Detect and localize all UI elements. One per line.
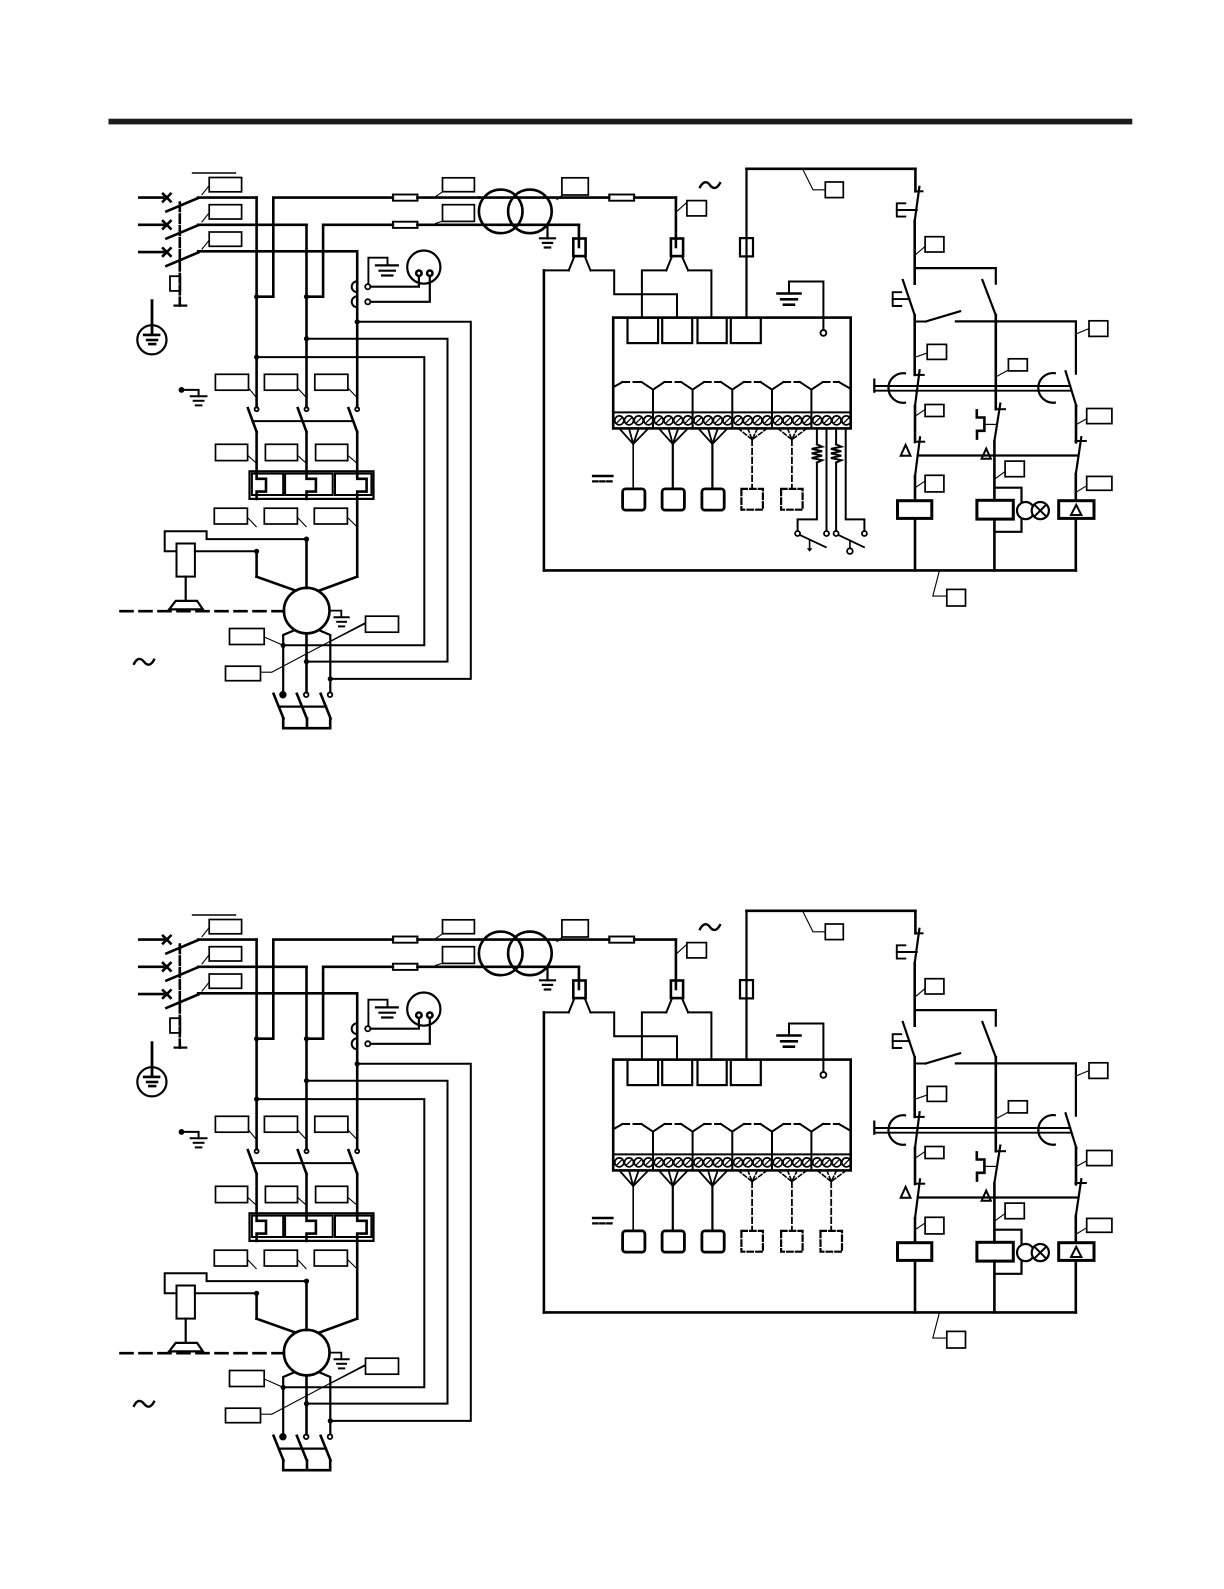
plug fork 1 D1 [642, 382, 654, 390]
connector X2 fan left D2 [666, 998, 672, 1012]
fuse F1 D1 [417, 196, 479, 199]
harness fan dashed 6 D2 [817, 1170, 831, 1181]
plug fork 5 D2 [800, 1124, 812, 1132]
plug contact arcs on L3 D1 [352, 281, 358, 292]
callout box C mid D1 [1087, 409, 1112, 424]
neutral ground lead D1 [184, 390, 199, 396]
earth circle symbol D1 [137, 325, 166, 354]
ground bars G2 D1 [778, 292, 801, 295]
future device box 4 dashed D1 [741, 489, 763, 510]
ground stub wire D2 [789, 1024, 823, 1073]
return bus D1 [544, 569, 1076, 572]
linkage actuator box D2 [170, 1018, 180, 1033]
callout leader fuse F2 D2 [436, 963, 443, 965]
wire B lower D1 [993, 442, 996, 501]
device box 2 D1 [662, 489, 684, 510]
contactor linkage bar D1 [253, 420, 352, 422]
branch split wire D2 [915, 1010, 996, 1026]
return bus D2 [544, 1311, 1076, 1314]
header rule [109, 119, 1133, 125]
relay input cell 3 D2 [698, 1060, 727, 1086]
device box 1 D2 [623, 1231, 645, 1252]
harness fan dashed 5 D2 [778, 1170, 792, 1181]
callout leader pole 1 D1 [202, 186, 209, 195]
callout leader pole 3 D2 [202, 982, 209, 991]
callout leader A mid D1 [916, 410, 926, 417]
device box 1 D1 [623, 489, 645, 510]
plug fork 4 D1 [761, 382, 773, 390]
plug fork 2 D2 [681, 1124, 693, 1132]
wire below contact pole 1 D1 [255, 432, 258, 472]
callout box motor lead A D1 [230, 629, 265, 645]
motor lead L1 diagonal D1 [255, 551, 258, 576]
earth circle symbol D2 [137, 1067, 166, 1096]
junction H3 D1 [328, 676, 333, 681]
callout box wiring pole 1 D1 [214, 508, 247, 524]
neutral ground bars D1 [191, 395, 207, 397]
callout leader secondary D1 [557, 195, 562, 199]
wire K2 to bus D1 [993, 519, 996, 570]
callout leader contactor pole 1 D1 [249, 388, 256, 397]
junction H1 D1 [281, 643, 286, 648]
emergency stop stub D2 [914, 911, 917, 934]
mounting trapezoid D1 [169, 601, 203, 610]
terminal strip top line D2 [613, 1153, 851, 1155]
ground at transformer D2 [546, 967, 548, 981]
emergency stop tick D1 [915, 190, 922, 192]
terminal X mark L2 D1 [163, 221, 171, 229]
relay coil K1 D1 [898, 501, 932, 519]
fuse F1 D2 [417, 938, 479, 941]
overload element pole 2 D1 [307, 472, 316, 499]
callout box B mid D2 [1005, 1203, 1024, 1219]
callout box branch C top D2 [1089, 1063, 1108, 1079]
contact circle pole 2 D2 [305, 1149, 309, 1153]
callout leader motor lead A D2 [264, 1379, 283, 1387]
lamp circle X D2 [1032, 1244, 1049, 1261]
wire L1 horizontal D2 [198, 938, 256, 941]
racking bus line 1 D2 [874, 1127, 1070, 1129]
resistor R2 D1 [831, 444, 841, 462]
neutral ground bars D2 [191, 1137, 207, 1139]
wire C mid D2 [1075, 1148, 1078, 1184]
callout box B mid D1 [1005, 461, 1024, 477]
emergency stop blade D1 [915, 187, 920, 221]
callout leader A mid D2 [916, 1152, 926, 1159]
mechanical coupling dashed D1 [121, 610, 284, 613]
racking bus line 1 D1 [874, 385, 1070, 387]
disconnect blade Q1 pole 1 D1 [166, 198, 198, 211]
wire C mid D1 [1075, 406, 1078, 442]
harness fan 1 D1 [619, 428, 633, 444]
sensor wire D D1 [846, 428, 865, 531]
breaker C blade D2 [1066, 1113, 1077, 1148]
callout box C mid D2 [1087, 1151, 1112, 1166]
socket body circle D1 [407, 251, 440, 284]
motor terminal mid D1 [305, 633, 308, 692]
enclosure left edge D2 [543, 1012, 546, 1312]
star switch contact circle 1 D1 [280, 692, 286, 698]
plug bus dashed segment 1 D1 [623, 381, 642, 383]
callout leader overload pole 2 D1 [298, 455, 306, 462]
junction node L1 tap D2 [254, 1036, 259, 1041]
wire A lower D2 [914, 1218, 917, 1242]
ground bracket at socket D1 [368, 258, 387, 284]
wire through transformer secondary D2 [479, 965, 579, 968]
contact circle pole 3 D2 [355, 1149, 359, 1153]
callout box branch A top D2 [927, 1086, 946, 1101]
sense wire from L1 D2 [257, 1099, 425, 1387]
racking bus line 2 D2 [874, 1132, 1070, 1134]
motor lead L2 D2 [305, 1281, 308, 1330]
sense wire from L2 D2 [307, 1081, 448, 1404]
enclosure left edge D1 [543, 270, 546, 570]
callout box fuse F2 D2 [443, 947, 475, 964]
callout leader pole 3 D1 [202, 240, 209, 249]
plug bus dashed segment 4 D2 [744, 1123, 761, 1125]
feeder line L1 D2 [139, 938, 163, 941]
junction H2 D1 [304, 659, 309, 664]
star switch blade 3 D1 [321, 694, 331, 719]
callout box top wire D1 [825, 182, 843, 198]
star switch contact circle 3 D1 [328, 692, 333, 697]
neutral dot D2 [179, 1129, 185, 1135]
plug bus dashed segment 3 D2 [704, 1123, 721, 1125]
wire through transformer primary D1 [479, 196, 609, 199]
socket pin 1 D1 [416, 271, 421, 276]
wire to connector X2 D2 [675, 940, 678, 989]
callout leader wiring pole 2 D1 [297, 517, 306, 526]
switch S1 fixed contact D1 [795, 531, 800, 536]
contact C2 blade D1 [1076, 437, 1082, 474]
junction H3 D2 [328, 1418, 333, 1423]
callout leader A low D1 [916, 481, 926, 488]
wire below start left D1 [913, 315, 916, 375]
plug fork 1 D2 [642, 1124, 654, 1132]
contact circle pole 1 D1 [255, 407, 259, 411]
callout box top wire D2 [825, 924, 843, 940]
wire L1 horizontal D1 [198, 196, 256, 199]
disconnect blade Q1 pole 2 D1 [166, 225, 198, 238]
wire C lower D1 [1075, 474, 1078, 501]
control feed top wire D1 [747, 168, 916, 171]
AC tilde mark lower D1 [134, 659, 154, 665]
callout box pole 2 D2 [209, 947, 241, 961]
racking bus end cap D1 [873, 380, 875, 392]
motor ground D2 [330, 1353, 342, 1360]
star switch bar box D2 [283, 1460, 330, 1470]
wire branch B upper D1 [994, 315, 997, 409]
relay coil K3 D1 [1059, 501, 1094, 519]
overload cell 2 D2 [285, 1216, 333, 1237]
junction node L1 tap D1 [254, 294, 259, 299]
callout box fuse F1 D1 [443, 178, 475, 192]
transformer T1 winding 2 D2 [508, 932, 552, 976]
plug bus dashed segment 3 D1 [704, 381, 721, 383]
callout leader branch C top D1 [1077, 329, 1089, 334]
callout box pole 2 D1 [209, 205, 241, 219]
callout leader X2 D2 [677, 944, 687, 953]
transducer box D2 [177, 1286, 195, 1319]
future device box 5 dashed D1 [781, 489, 803, 510]
callout box bus D1 [947, 589, 966, 606]
ground stub circle D2 [821, 1072, 827, 1078]
junction at L1 D2 [254, 1291, 259, 1296]
harness fan dashed 4 D2 [738, 1170, 752, 1181]
socket wire 2 D1 [371, 276, 430, 302]
callout box contactor pole 2 D2 [264, 1116, 297, 1132]
star switch contact circle 3 D2 [328, 1434, 333, 1439]
harness fan 2 D1 [659, 428, 673, 444]
mounting trapezoid D2 [169, 1343, 203, 1352]
wire L2 into connector X1 D1 [578, 225, 581, 247]
emergency stop actuator E1 D1 [897, 203, 906, 216]
latch device D1 [977, 410, 985, 438]
start contact left blade D1 [903, 280, 915, 315]
sense wire from L3 D2 [330, 1064, 471, 1421]
linkage actuator box D1 [170, 276, 180, 291]
relay coil K1 D2 [898, 1243, 932, 1261]
callout box e-stop D2 [925, 979, 944, 994]
callout leader contactor pole 1 D2 [249, 1130, 256, 1139]
callout leader A low D2 [916, 1223, 926, 1230]
wire below contact pole 3 D1 [356, 432, 359, 472]
overload cell 1 D1 [252, 474, 283, 495]
overload cell 2 D1 [285, 474, 333, 495]
wire below start left D2 [913, 1057, 916, 1117]
wire C lower D2 [1075, 1216, 1078, 1243]
contact circle pole 1 D2 [255, 1149, 259, 1153]
motor lead L3 diagonal D2 [356, 1241, 359, 1319]
wire X1 to cell 2 D1 [591, 270, 678, 317]
callout box bus D2 [947, 1331, 966, 1348]
harness fan 3 D2 [698, 1170, 712, 1186]
ground bracket at socket D2 [368, 1000, 387, 1026]
breaker A blade D1 [915, 370, 920, 406]
wire L2 fuse branch D1 [307, 225, 393, 297]
connector X1 fan right D2 [585, 998, 591, 1012]
wire L3 drop D2 [356, 993, 359, 1149]
junction L1 sense D1 [254, 355, 259, 360]
feeder line L1 D1 [139, 196, 163, 199]
terminal strip top line D1 [613, 411, 851, 413]
latch device D2 [977, 1152, 985, 1180]
resistor R1 D1 [812, 444, 822, 462]
callout box secondary D1 [562, 178, 588, 195]
callout box branch B top D2 [1008, 1101, 1027, 1113]
contactor blade pole 2 D1 [298, 408, 307, 432]
plug fork 2 D1 [681, 382, 693, 390]
plug fork 4 D2 [761, 1124, 773, 1132]
junction at L1 D1 [254, 549, 259, 554]
terminal X mark L2 D2 [163, 963, 171, 971]
socket wire 2 D2 [371, 1018, 430, 1044]
callout leader wiring pole 1 D1 [247, 517, 256, 526]
callout leader branch A top D2 [916, 1095, 928, 1099]
transformer T1 winding 1 D1 [479, 190, 523, 234]
relay unit enclosure D1 [613, 318, 851, 429]
mechanical coupling dashed D2 [121, 1352, 284, 1355]
connector X2 fan right D2 [682, 998, 688, 1012]
earth reference lead D2 [151, 1043, 154, 1077]
motor M1 circle D2 [284, 1330, 330, 1376]
coil feed rail D2 [918, 1196, 1079, 1198]
wire through transformer secondary D1 [479, 224, 579, 227]
plug bus dashed segment 5 D2 [784, 1123, 800, 1125]
plug bus dashed segment 4 D1 [744, 381, 761, 383]
terminal X mark L1 D2 [163, 936, 171, 944]
sensor wire B D1 [826, 428, 828, 531]
callout box contactor pole 2 D1 [264, 374, 297, 390]
DC symbol D1 [593, 475, 612, 478]
wire L3 drop D1 [356, 251, 359, 407]
switch S2 fixed contact D1 [834, 531, 839, 536]
callout box A mid D2 [925, 1147, 944, 1159]
contact A2 tick D1 [915, 441, 924, 443]
contactor blade pole 3 D2 [349, 1150, 358, 1174]
wire L2 drop D1 [305, 225, 308, 407]
earth bars in circle D1 [144, 334, 159, 337]
shunt wire hook D2 [165, 1273, 307, 1293]
switch S2 moving contact D1 [862, 531, 867, 536]
callout box motor lead B D1 [226, 666, 261, 681]
callout leader C mid D1 [1077, 419, 1087, 424]
overload element pole 1 D1 [257, 472, 266, 499]
start contact left blade D2 [903, 1022, 915, 1057]
callout leader C mid D2 [1077, 1161, 1087, 1166]
wire below contact pole 1 D2 [255, 1174, 258, 1214]
callout leader overload pole 1 D2 [248, 1197, 256, 1204]
start actuator E2 D1 [893, 292, 902, 306]
connector X2 fan left D1 [666, 256, 672, 270]
wire X3 drop D1 [745, 169, 747, 318]
wire below contact pole 2 D2 [305, 1174, 308, 1214]
contact C2 blade D2 [1076, 1179, 1082, 1216]
contactor blade pole 1 D1 [248, 408, 257, 432]
callout leader pole 2 D1 [202, 213, 209, 222]
star switch contact circle 2 D1 [304, 692, 309, 697]
callout leader X2 D1 [677, 202, 687, 211]
wire L3 horizontal D2 [198, 992, 357, 995]
relay unit enclosure D2 [613, 1060, 851, 1171]
callout leader motor lead A D1 [264, 637, 283, 645]
wire L2 into connector X1 D2 [578, 967, 581, 989]
contactor blade pole 1 D2 [248, 1150, 257, 1174]
plug arc branch C D2 [1038, 1115, 1055, 1145]
AC tilde mark D2 [700, 924, 720, 930]
callout leader contactor pole 3 D2 [348, 1130, 357, 1139]
socket pin tip 2 D2 [365, 1041, 370, 1046]
callout leader overload pole 2 D2 [298, 1197, 306, 1204]
contact circle pole 3 D1 [355, 407, 359, 411]
wire L2 horizontal D2 [198, 965, 306, 968]
wire A mid D1 [914, 406, 917, 442]
sense wire from L3 D1 [330, 322, 471, 679]
relay input cell 4 D2 [731, 1060, 761, 1086]
junction node L2 tap D1 [304, 294, 309, 299]
terminal X mark L3 D2 [163, 990, 171, 998]
callout box A low D2 [925, 1217, 944, 1234]
wire L1 drop D2 [255, 940, 258, 1150]
wire L1 fuse branch D1 [257, 198, 393, 297]
motor terminal right D1 [319, 630, 330, 692]
overload cell 3 D2 [335, 1216, 371, 1237]
AC tilde mark lower D2 [134, 1401, 154, 1407]
emergency stop tick D2 [915, 932, 922, 934]
motor M1 circle D1 [284, 588, 330, 634]
wire to connector X2 D1 [675, 198, 678, 247]
callout box fuse F1 D2 [443, 920, 475, 934]
plug bus dashed segment 6 D1 [823, 381, 839, 383]
relay input cell 3 D1 [698, 318, 727, 344]
callout box pole 3 D1 [209, 232, 241, 246]
DC symbol D2 [593, 1217, 612, 1220]
connector X3 box D1 [740, 238, 753, 256]
latch contact tick D1 [996, 408, 1005, 410]
junction hook at L2 D2 [304, 1279, 309, 1284]
contact circle pole 2 D1 [305, 407, 309, 411]
plug arc branch A D1 [888, 373, 905, 403]
ground bars G2 D2 [778, 1034, 801, 1037]
wire X3 drop D2 [745, 911, 747, 1060]
future device box 4 dashed D2 [741, 1231, 763, 1252]
callout box contactor pole 1 D1 [215, 374, 248, 390]
callout box X2 D1 [687, 201, 707, 216]
switch S1 plunger D1 [809, 540, 811, 548]
triangle marker A D1 [901, 445, 911, 456]
emergency stop actuator E1 D2 [897, 945, 906, 958]
overload relay outer box D2 [250, 1213, 374, 1241]
callout box contactor pole 3 D1 [315, 374, 348, 390]
start contact right blade D2 [982, 1022, 995, 1057]
switch S2 actuator D1 [849, 541, 851, 549]
callout box wiring pole 3 D1 [314, 508, 347, 524]
callout box motor D2 [366, 1358, 399, 1374]
wire L3 horizontal D1 [198, 250, 357, 253]
callout leader bus D1 [933, 571, 947, 596]
overload element pole 2 D2 [307, 1214, 316, 1241]
callout box branch A top D1 [927, 344, 946, 359]
disconnect blade Q1 pole 2 D2 [166, 967, 198, 980]
socket wire 1 D1 [371, 276, 419, 287]
sensor wire C lower D1 [835, 463, 837, 532]
plug fork 3 D1 [721, 382, 733, 390]
star switch blade 3 D2 [321, 1436, 331, 1461]
feeder line L2 D1 [139, 224, 163, 227]
callout leader e-stop D1 [916, 246, 925, 254]
relay input cell 2 D1 [662, 318, 692, 344]
contactor linkage bar D2 [253, 1162, 352, 1164]
star switch linkage bar D2 [279, 1447, 326, 1449]
callout leader bus D2 [933, 1313, 947, 1338]
callout leader top wire D2 [803, 911, 826, 931]
star switch blade 2 D1 [297, 694, 307, 719]
mechanical linkage Q1 D2 [179, 945, 182, 1048]
harness fan 3 D1 [698, 428, 712, 444]
harness fan dashed 4 D1 [738, 428, 752, 439]
triangle marker A D2 [901, 1187, 911, 1198]
feeder line L2 D2 [139, 965, 163, 968]
plug bus dashed segment 2 D2 [665, 1123, 682, 1125]
switch S1 moving contact D1 [824, 531, 829, 536]
motor lead L2 D1 [305, 539, 308, 588]
start contact right blade D1 [982, 280, 995, 315]
callout leader branch A top D1 [916, 353, 928, 357]
terminal X mark L1 D1 [163, 194, 171, 202]
wire A lower D1 [914, 476, 917, 500]
harness fan 2 D2 [659, 1170, 673, 1186]
wire K1 to bus D1 [914, 518, 917, 570]
